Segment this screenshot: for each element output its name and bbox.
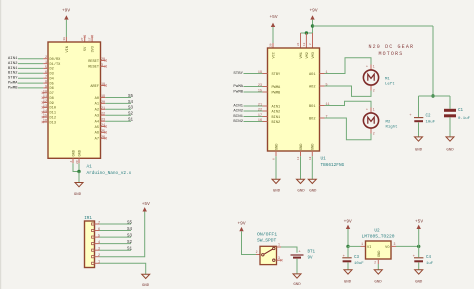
wire Arduino A0 to net S5 xyxy=(105,97,131,99)
svg-text:GND: GND xyxy=(374,281,382,285)
wire net BIN2 to Arduino D3 xyxy=(18,72,43,74)
connector IR1 pin box 1 xyxy=(92,262,95,264)
pin D11 14 no-connect xyxy=(43,111,48,113)
wire net AIN2 to Arduino D1/TX xyxy=(18,63,43,65)
wire C4 to ground xyxy=(418,263,420,270)
wire IR1 pin 7 to net S5 xyxy=(100,223,132,225)
svg-text:+9V: +9V xyxy=(62,7,70,13)
svg-text:S2: S2 xyxy=(128,113,134,117)
pin VI 1 xyxy=(361,245,366,247)
svg-text:18: 18 xyxy=(309,156,312,160)
svg-text:D1/TX: D1/TX xyxy=(50,62,62,67)
wire +9V to switch common xyxy=(242,231,257,254)
svg-text:10uF: 10uF xyxy=(354,262,364,266)
power arrow +9V reg xyxy=(346,225,350,229)
svg-text:A7: A7 xyxy=(95,138,99,142)
wire +9V down to caps xyxy=(432,26,434,96)
power arrow +9V motors xyxy=(310,15,314,19)
pin 1 xyxy=(95,262,100,264)
svg-text:+9V: +9V xyxy=(309,7,317,13)
pin A5 24 no-connect xyxy=(101,126,106,128)
svg-text:D7: D7 xyxy=(50,92,54,96)
svg-text:D9: D9 xyxy=(50,102,54,106)
power arrow +5V xyxy=(271,23,275,27)
svg-text:+: + xyxy=(366,65,368,69)
connector IR1 pin box 3 xyxy=(92,249,95,251)
wire net PwMB to U1 PWMB xyxy=(244,91,263,93)
svg-text:GND: GND xyxy=(415,148,423,152)
svg-text:VCC: VCC xyxy=(272,52,276,58)
pin VM3 2 xyxy=(312,33,314,48)
pin PWMA 23 xyxy=(263,86,268,88)
svg-text:GND: GND xyxy=(415,281,423,285)
svg-text:20: 20 xyxy=(101,101,105,105)
svg-text:1: 1 xyxy=(278,243,280,247)
wire IR1 pin 5 to net S3 xyxy=(100,236,132,238)
connector IR1 pin box 2 xyxy=(92,256,95,258)
pin RESET 3 no-connect xyxy=(101,65,106,67)
svg-text:13: 13 xyxy=(43,105,47,109)
pin A2 21 xyxy=(101,108,106,110)
driver U1 TB6612FNG body xyxy=(268,48,320,151)
wire net AIN2 to U1 AIN2 xyxy=(244,110,263,112)
wire cap rail xyxy=(419,95,451,97)
svg-text:10uF: 10uF xyxy=(426,121,436,125)
svg-text:28: 28 xyxy=(101,58,105,62)
pin A3 22 xyxy=(101,114,106,116)
svg-text:22: 22 xyxy=(258,109,262,113)
pin D1/TX 1 xyxy=(43,63,48,65)
switch contact A xyxy=(273,247,275,249)
svg-text:3: 3 xyxy=(394,242,396,246)
svg-text:GND: GND xyxy=(273,190,281,194)
wire Arduino A2 to net S3 xyxy=(105,108,131,110)
wire U2 GND down xyxy=(377,264,379,270)
svg-text:3: 3 xyxy=(278,256,280,260)
svg-text:15: 15 xyxy=(43,115,47,119)
svg-text:6: 6 xyxy=(98,228,100,232)
svg-text:VIN: VIN xyxy=(66,46,70,52)
svg-text:7: 7 xyxy=(98,221,100,225)
wire GND pins join xyxy=(73,163,79,171)
svg-text:U2: U2 xyxy=(374,228,380,233)
svg-text:S3: S3 xyxy=(127,235,133,239)
pin D8 11 no-connect xyxy=(43,97,48,99)
wire BO2 to M2- xyxy=(325,118,372,140)
motor M2 pin 1 xyxy=(370,108,372,113)
ground under U1 pin 12 xyxy=(297,179,305,183)
svg-text:PwMA: PwMA xyxy=(8,82,18,86)
svg-text:10: 10 xyxy=(43,90,47,94)
MCU A1 Arduino_Nano body xyxy=(48,42,101,158)
switch contact common xyxy=(262,254,264,256)
pin D0/RX 2 xyxy=(43,58,48,60)
svg-text:BIN2: BIN2 xyxy=(272,121,281,125)
ground under U2 xyxy=(374,270,382,274)
svg-text:BO2: BO2 xyxy=(309,117,315,121)
svg-text:27: 27 xyxy=(81,37,84,41)
svg-text:GND: GND xyxy=(378,251,382,257)
switch ON/OFF1 body xyxy=(260,246,277,264)
svg-text:BIN2: BIN2 xyxy=(8,72,18,76)
wire AO2 to M1- xyxy=(325,86,372,96)
pin D9 12 no-connect xyxy=(43,102,48,104)
capacitor C3 10uF polarized xyxy=(342,257,351,259)
svg-text:0.1uF: 0.1uF xyxy=(458,117,471,121)
ground under U1 pin 18 xyxy=(308,179,316,183)
wire net BIN1 to Arduino D2 xyxy=(18,67,43,69)
svg-text:25: 25 xyxy=(101,130,105,134)
svg-text:BO1: BO1 xyxy=(309,105,315,109)
svg-text:12: 12 xyxy=(43,100,47,104)
svg-text:ON/OFF1: ON/OFF1 xyxy=(257,232,277,238)
svg-text:GND: GND xyxy=(74,193,82,197)
svg-text:21: 21 xyxy=(258,104,262,108)
wire GND pin 29 down xyxy=(78,163,80,171)
ground under BT1 xyxy=(293,274,301,278)
pin 3 xyxy=(95,249,100,251)
svg-text:S2: S2 xyxy=(127,241,133,245)
wire net PwMB to Arduino D6 xyxy=(18,87,43,89)
wire IR1 pin 6 to net S4 xyxy=(100,230,132,232)
svg-text:AO2: AO2 xyxy=(309,85,315,89)
svg-text:S4: S4 xyxy=(127,228,133,232)
svg-text:5: 5 xyxy=(98,234,100,238)
wire net AIN1 to Arduino D0/RX xyxy=(18,58,43,60)
motor M1 pin 2 xyxy=(370,86,372,91)
wire BO1 to M2+ xyxy=(325,101,372,107)
svg-text:MOTORS: MOTORS xyxy=(378,51,403,57)
wire C2 to ground xyxy=(418,122,420,136)
svg-text:3: 3 xyxy=(98,248,100,252)
wire AO1 to M1+ xyxy=(325,58,372,74)
svg-text:21: 21 xyxy=(101,107,105,111)
pin RESET 28 no-connect xyxy=(101,60,106,62)
svg-text:20: 20 xyxy=(270,43,273,47)
svg-text:VM3: VM3 xyxy=(312,52,316,58)
wire VM bus xyxy=(301,32,313,34)
pin 7 xyxy=(95,223,100,225)
svg-text:A1: A1 xyxy=(95,103,99,107)
wire C1 to ground xyxy=(449,117,451,137)
svg-text:23: 23 xyxy=(258,84,262,88)
ground under C2 xyxy=(415,137,423,141)
svg-text:D4: D4 xyxy=(50,78,54,82)
wire IR1 pin 3 to net S1 xyxy=(100,249,132,251)
connector IR1 pin box 6 xyxy=(92,229,95,231)
svg-text:AIN1: AIN1 xyxy=(8,57,18,61)
pin GND 29 xyxy=(78,158,80,163)
svg-text:D0/RX: D0/RX xyxy=(50,57,62,62)
wire GND to ground xyxy=(275,156,277,179)
svg-text:+5V: +5V xyxy=(269,14,277,20)
svg-text:1uF: 1uF xyxy=(426,262,434,266)
pin D3 6 xyxy=(43,72,48,74)
connector IR1 pin box 7 xyxy=(92,223,95,225)
svg-text:PWMB: PWMB xyxy=(272,91,281,95)
wire IR1 pin2 to +5V xyxy=(100,212,145,257)
svg-text:U1: U1 xyxy=(321,156,327,161)
svg-text:GND: GND xyxy=(446,148,454,152)
ground under C4 xyxy=(415,270,423,274)
svg-text:8: 8 xyxy=(45,81,47,85)
svg-text:AO1: AO1 xyxy=(309,73,315,77)
svg-text:15: 15 xyxy=(258,90,262,94)
svg-text:D2: D2 xyxy=(50,68,54,72)
svg-text:+9V: +9V xyxy=(344,218,352,224)
svg-text:S5: S5 xyxy=(127,221,133,225)
wire GND to ground xyxy=(311,156,313,179)
svg-text:GND: GND xyxy=(300,144,304,150)
svg-text:2: 2 xyxy=(98,254,100,258)
wire IR1 pin1 to ground xyxy=(100,263,146,274)
junction +9V tap xyxy=(311,24,314,27)
wire +9V to VIN xyxy=(65,20,67,37)
capacitor C1 0.1uF xyxy=(444,109,456,112)
svg-text:GND: GND xyxy=(142,284,150,288)
svg-text:AIN1: AIN1 xyxy=(272,105,281,109)
svg-text:PwMB: PwMB xyxy=(233,90,243,94)
svg-text:9V: 9V xyxy=(308,256,314,260)
svg-text:2: 2 xyxy=(373,88,375,92)
pin VO 3 xyxy=(391,245,396,247)
svg-text:D3: D3 xyxy=(50,73,54,77)
wire IR1 pin 4 to net S2 xyxy=(100,243,132,245)
svg-text:VI: VI xyxy=(367,246,371,250)
svg-text:RESET: RESET xyxy=(88,66,100,70)
svg-text:STBY: STBY xyxy=(8,77,18,81)
pin GND 4 xyxy=(72,158,74,163)
pin A0 19 xyxy=(101,97,106,99)
svg-text:16: 16 xyxy=(43,120,47,124)
svg-text:+5V: +5V xyxy=(142,201,150,207)
wire +9V down to VM xyxy=(312,20,314,33)
svg-text:A5: A5 xyxy=(95,126,99,130)
svg-text:D6: D6 xyxy=(50,87,54,91)
svg-text:4: 4 xyxy=(70,161,73,163)
svg-text:VM1: VM1 xyxy=(300,52,304,58)
svg-text:1: 1 xyxy=(98,261,100,265)
pin BIN1 17 xyxy=(263,116,268,118)
wire net PwMA to U1 PWMA xyxy=(244,86,263,88)
pin AREF 18 no-connect xyxy=(101,85,106,87)
svg-text:M2: M2 xyxy=(386,120,391,124)
junction VI / C3 xyxy=(346,245,349,248)
wire net STBY to U1 STBY xyxy=(244,73,263,75)
wire to ground xyxy=(78,172,80,183)
junction caps xyxy=(431,94,434,97)
svg-text:S5: S5 xyxy=(128,95,134,99)
svg-text:PwMA: PwMA xyxy=(233,85,243,89)
svg-text:19: 19 xyxy=(101,95,105,99)
pin A4 23 xyxy=(101,120,106,122)
svg-text:16: 16 xyxy=(258,119,262,123)
svg-text:4: 4 xyxy=(98,241,100,245)
pin AO1 1 xyxy=(320,73,325,75)
motor M2 Right xyxy=(363,113,378,128)
svg-text:GND: GND xyxy=(297,190,305,194)
svg-text:C1: C1 xyxy=(458,109,464,113)
ground under U1 pin 6 xyxy=(272,179,280,183)
svg-text:A6: A6 xyxy=(95,132,99,136)
wire GND to ground xyxy=(300,156,302,179)
junction VM bus xyxy=(305,31,308,34)
motor M1 Left xyxy=(363,70,378,85)
wire switch to battery + xyxy=(281,247,297,253)
pin D2 5 xyxy=(43,67,48,69)
pin 2 xyxy=(95,256,100,258)
ground under C1 xyxy=(446,137,454,141)
battery BT1 9V xyxy=(291,254,304,256)
wire net BIN1 to U1 BIN1 xyxy=(244,116,263,118)
svg-text:24: 24 xyxy=(297,42,300,46)
wire junction to C4 xyxy=(418,246,420,257)
svg-text:A1: A1 xyxy=(87,164,93,169)
wire net PwMA to Arduino D5 xyxy=(18,82,43,84)
svg-text:AIN2: AIN2 xyxy=(8,62,18,66)
svg-text:17: 17 xyxy=(258,114,262,118)
svg-text:A0: A0 xyxy=(95,97,99,101)
svg-text:S1: S1 xyxy=(127,248,133,252)
svg-text:AIN2: AIN2 xyxy=(233,109,243,113)
pin D7 10 no-connect xyxy=(43,92,48,94)
svg-text:1: 1 xyxy=(361,242,363,246)
svg-text:AIN1: AIN1 xyxy=(233,104,243,108)
connector IR1 body xyxy=(85,221,95,268)
svg-text:GND: GND xyxy=(293,283,301,287)
svg-text:M1: M1 xyxy=(385,77,390,81)
svg-text:TB6612FNG: TB6612FNG xyxy=(321,163,345,168)
svg-text:29: 29 xyxy=(76,160,79,164)
svg-text:GND: GND xyxy=(275,144,279,150)
svg-text:BIN1: BIN1 xyxy=(8,67,18,71)
power arrow +9V xyxy=(64,15,68,19)
svg-text:2: 2 xyxy=(374,260,376,264)
pin GND 12 bottom xyxy=(300,151,302,156)
svg-text:C4: C4 xyxy=(426,256,432,260)
motor M2 pin 2 xyxy=(370,129,372,134)
pin BO1 11 xyxy=(320,105,325,107)
motor M1 pin 1 xyxy=(370,65,372,70)
regulator U2 LM7805 body xyxy=(366,241,392,259)
pin PWMB 15 xyxy=(263,91,268,93)
svg-text:AREF: AREF xyxy=(90,85,99,89)
svg-text:3: 3 xyxy=(101,64,103,68)
svg-text:22: 22 xyxy=(101,113,105,117)
svg-text:+9V: +9V xyxy=(237,221,245,227)
svg-text:BIN2: BIN2 xyxy=(233,120,243,124)
pin D10 13 no-connect xyxy=(43,106,48,108)
pin 5 xyxy=(95,236,100,238)
wire battery - to ground xyxy=(296,259,298,274)
svg-text:Left: Left xyxy=(385,81,395,86)
svg-text:N20 DC GEAR: N20 DC GEAR xyxy=(368,44,414,50)
switch lever xyxy=(264,249,273,254)
pin D6 9 xyxy=(43,87,48,89)
pin D13 16 no-connect xyxy=(43,121,48,123)
wire net AIN1 to U1 AIN1 xyxy=(244,105,263,107)
pin switch A 1 xyxy=(277,246,282,248)
svg-text:7: 7 xyxy=(45,76,47,80)
wire up to +5V xyxy=(418,229,420,246)
pin 5V 27 no-connect xyxy=(84,37,86,42)
svg-text:PwMB: PwMB xyxy=(8,86,18,90)
svg-text:C3: C3 xyxy=(354,256,360,260)
power arrow +5V IR xyxy=(143,207,147,211)
wire VO to +5V rail xyxy=(396,245,419,247)
svg-text:GND: GND xyxy=(73,150,77,156)
svg-text:13: 13 xyxy=(303,42,306,46)
pin A1 20 xyxy=(101,102,106,104)
wire to U2 VI xyxy=(348,245,361,247)
pin VIN 30 xyxy=(65,37,67,42)
svg-text:18: 18 xyxy=(101,83,105,87)
wire net STBY to Arduino D4 xyxy=(18,77,43,79)
pin GND 18 bottom xyxy=(311,151,313,156)
pin 6 xyxy=(95,230,100,232)
svg-text:D8: D8 xyxy=(50,97,54,101)
wire Arduino A1 to net S4 xyxy=(105,102,131,104)
pin VM2 13 xyxy=(305,33,307,48)
pin switch common 2 xyxy=(256,254,260,256)
svg-text:RESET: RESET xyxy=(88,60,100,64)
pin STBY 19 xyxy=(263,73,268,75)
pin D5 8 xyxy=(43,82,48,84)
svg-text:BIN1: BIN1 xyxy=(272,116,281,120)
svg-text:2: 2 xyxy=(373,131,375,135)
svg-text:PWMA: PWMA xyxy=(272,86,281,90)
pin switch B 3 no-connect xyxy=(277,259,282,261)
svg-text:Right: Right xyxy=(386,124,398,129)
svg-text:VO: VO xyxy=(385,246,389,250)
svg-text:30: 30 xyxy=(63,37,66,41)
switch contact B xyxy=(273,259,275,261)
junction GND xyxy=(77,170,80,173)
svg-text:D13: D13 xyxy=(50,121,56,125)
wire +9V to caps (top run) xyxy=(313,25,434,27)
wire net BIN2 to U1 BIN2 xyxy=(244,121,263,123)
pin 4 xyxy=(95,243,100,245)
ground under IR1 xyxy=(142,274,150,278)
power arrow +9V battery xyxy=(239,227,243,231)
svg-text:GND: GND xyxy=(312,144,316,150)
svg-text:S4: S4 xyxy=(128,101,134,105)
pin 3V3 17 no-connect xyxy=(91,37,93,42)
svg-text:BIN1: BIN1 xyxy=(233,115,243,119)
wire Arduino A3 to net S2 xyxy=(105,114,131,116)
svg-text:24: 24 xyxy=(101,124,105,128)
pin AIN2 22 xyxy=(263,110,268,112)
svg-text:GND: GND xyxy=(344,281,352,285)
pin GND 2 xyxy=(377,259,379,264)
svg-text:S3: S3 xyxy=(128,107,134,111)
pin BO2 7 xyxy=(320,117,325,119)
svg-text:SW_SPDT: SW_SPDT xyxy=(257,238,277,244)
svg-text:VM2: VM2 xyxy=(306,52,310,58)
svg-text:D11: D11 xyxy=(50,112,56,116)
pin D4 7 xyxy=(43,77,48,79)
svg-text:STBY: STBY xyxy=(233,72,243,76)
connector IR1 pin box 4 xyxy=(92,243,95,245)
junction VO / C4 xyxy=(417,245,420,248)
svg-text:C2: C2 xyxy=(426,114,432,118)
pin A6 25 no-connect xyxy=(101,131,106,133)
pin VCC 20 xyxy=(272,43,274,48)
wire +5V to VCC xyxy=(272,27,274,43)
svg-text:S1: S1 xyxy=(128,119,134,123)
svg-text:9: 9 xyxy=(45,85,47,89)
pin GND 6 bottom xyxy=(275,151,277,156)
